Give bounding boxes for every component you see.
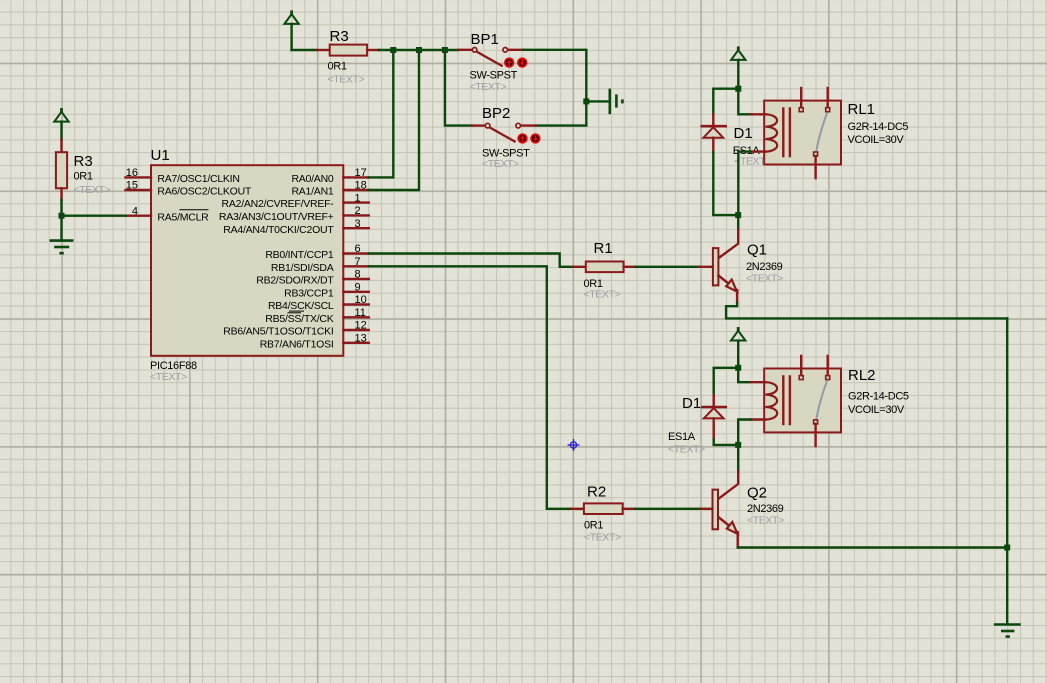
svg-text:<TEXT>: <TEXT>	[747, 515, 784, 527]
svg-text:13: 13	[355, 333, 367, 345]
origin marker (blue)	[568, 439, 580, 451]
BP1 toggle button up	[504, 57, 514, 67]
pin 18 RA1/AN1	[291, 180, 368, 198]
svg-text:RB7/AN6/T1OSI: RB7/AN6/T1OSI	[260, 338, 334, 350]
diode D1 (lower) ES1A	[668, 395, 727, 456]
resistor R2	[572, 484, 636, 544]
junction node at Q2 collector	[735, 442, 741, 448]
svg-text:U1: U1	[151, 147, 170, 164]
svg-text:2N2369: 2N2369	[747, 503, 784, 515]
svg-text:RB6/AN5/T1OSO/T1CKI: RB6/AN5/T1OSO/T1CKI	[223, 326, 333, 338]
wire down to pin 18	[369, 50, 419, 190]
wire right rail down to ground	[1006, 318, 1008, 624]
svg-text:2N2369: 2N2369	[746, 261, 783, 273]
BP2 toggle button up	[517, 133, 527, 143]
wire BP1 right down to BP2	[523, 50, 586, 126]
svg-text:Q1: Q1	[747, 242, 767, 259]
svg-text:RB4/SCK/SCL: RB4/SCK/SCL	[268, 300, 334, 312]
svg-text:17: 17	[355, 167, 367, 179]
svg-text:RB1/SDI/SDA: RB1/SDI/SDA	[271, 262, 334, 274]
wire pin 7 down to R2	[369, 266, 572, 509]
wire relay coil bottom to collector node	[738, 152, 750, 216]
wire RL2 coil bottom to Q2 collector node	[738, 420, 750, 445]
svg-text:RA4/AN4/T0CKI/C2OUT: RA4/AN4/T0CKI/C2OUT	[223, 224, 334, 236]
wire D1 anode down to collector node	[713, 152, 738, 215]
junction node VCC/RL1	[735, 86, 741, 92]
svg-text:<TEXT>: <TEXT>	[584, 288, 621, 300]
svg-text:18: 18	[355, 180, 367, 192]
IC U1 PIC16F88 microcontroller	[150, 147, 343, 383]
svg-text:11: 11	[355, 307, 366, 319]
pin 12 RB6/AN5/T1OSO/T1CKI	[223, 320, 369, 338]
pin 6 RB0/INT/CCP1	[265, 243, 368, 261]
junction node VCC/RL2	[735, 365, 741, 371]
wire R3 to BP1	[379, 49, 458, 51]
svg-text:RB0/INT/CCP1: RB0/INT/CCP1	[265, 249, 334, 261]
junction node at pin18	[416, 47, 422, 53]
ground (bar style, right of BP1)	[610, 89, 623, 115]
wire node to D1 top	[713, 89, 738, 115]
svg-text:<TEXT>: <TEXT>	[150, 371, 187, 383]
pin 4 RA5/MCLR (overline on MCLR)	[126, 205, 210, 223]
wire D1 lower anode to Q2 collector node	[714, 439, 739, 445]
svg-text:BP2: BP2	[482, 105, 510, 122]
pin 16 RA7/OSC1/CLKIN	[126, 167, 240, 185]
power symbol VCC relay RL1	[731, 46, 745, 88]
svg-text:1: 1	[355, 192, 361, 204]
transistor Q1 2N2369	[699, 229, 783, 303]
wire Q1 emitter to right rail	[726, 303, 1007, 318]
BP1 toggle button down	[517, 57, 527, 67]
junction node at R3/pin17	[390, 47, 396, 53]
svg-text:G2R-14-DC5: G2R-14-DC5	[848, 121, 909, 133]
svg-text:D1: D1	[734, 125, 753, 142]
wire node to RL2 coil top	[738, 368, 750, 382]
pin 13 RB7/AN6/T1OSI	[260, 333, 369, 351]
svg-text:SW-SPST: SW-SPST	[470, 69, 518, 81]
relay RL1 G2R-14-DC5	[751, 88, 909, 178]
wire R3 bottom to node	[60, 200, 62, 216]
wire down to pin 17	[369, 50, 394, 177]
wire node to pin 4	[62, 214, 126, 216]
junction node at Q1 collector	[735, 212, 741, 218]
relay RL2 G2R-14-DC5	[751, 356, 909, 446]
power symbol VCC top	[284, 10, 298, 50]
pin 9 RB3/CCP1	[284, 282, 369, 300]
svg-text:BP1: BP1	[471, 31, 499, 48]
svg-text:RA0/AN0: RA0/AN0	[291, 173, 333, 185]
switch BP2 SW-SPST	[472, 105, 536, 170]
resistor R1	[574, 240, 636, 300]
wire down to BP2	[445, 50, 472, 126]
resistor R3 (left, vertical)	[56, 140, 111, 200]
svg-text:R2: R2	[587, 484, 606, 501]
svg-text:15: 15	[126, 180, 138, 192]
svg-text:16: 16	[126, 167, 138, 179]
svg-text:R3: R3	[330, 28, 349, 45]
resistor R3 (top)	[317, 28, 379, 85]
svg-text:RA1/AN1: RA1/AN1	[291, 186, 333, 198]
wire pin 6 to R1	[369, 254, 574, 267]
pin 2 RA3/AN3/C1OUT/VREF+	[219, 205, 369, 223]
svg-text:RL1: RL1	[848, 101, 876, 118]
svg-text:Q2: Q2	[747, 485, 767, 502]
svg-text:0R1: 0R1	[74, 171, 93, 183]
junction node at R3/ground	[59, 213, 65, 219]
wire node to ground	[60, 216, 62, 241]
wire R2 to Q2 base	[636, 508, 701, 510]
svg-text:10: 10	[355, 294, 367, 306]
svg-text:RB2/SDO/RX/DT: RB2/SDO/RX/DT	[256, 275, 334, 287]
power symbol VCC left	[54, 108, 68, 140]
svg-text:ES1A: ES1A	[668, 431, 696, 443]
wire node to Q1 collector	[737, 215, 739, 229]
svg-text:7: 7	[355, 256, 361, 268]
svg-text:9: 9	[355, 282, 361, 294]
svg-text:12: 12	[355, 320, 367, 332]
svg-text:<TEXT>: <TEXT>	[328, 73, 365, 85]
svg-text:0R1: 0R1	[328, 60, 347, 72]
svg-text:<TEXT>: <TEXT>	[470, 81, 507, 93]
svg-text:0R1: 0R1	[584, 520, 603, 532]
svg-text:4: 4	[132, 205, 138, 217]
svg-text:RA6/OSC2/CLKOUT: RA6/OSC2/CLKOUT	[157, 186, 252, 198]
svg-text:<TEXT>: <TEXT>	[746, 273, 783, 285]
pin 7 RB1/SDI/SDA	[271, 256, 369, 274]
pin 3 RA4/AN4/T0CKI/C2OUT	[223, 218, 369, 236]
svg-text:8: 8	[355, 269, 361, 281]
svg-text:RA5/MCLR: RA5/MCLR	[157, 211, 209, 223]
svg-text:RB5/SS/TX/CK: RB5/SS/TX/CK	[265, 313, 333, 325]
svg-text:<TEXT>: <TEXT>	[74, 184, 111, 196]
wire node to relay coil top	[738, 89, 750, 115]
svg-text:3: 3	[355, 218, 361, 230]
power symbol VCC relay RL2	[731, 327, 745, 368]
svg-text:R3: R3	[74, 153, 93, 170]
svg-text:R1: R1	[594, 240, 613, 257]
svg-text:<TEXT>: <TEXT>	[482, 158, 519, 170]
wire to ground bars	[586, 100, 610, 102]
wire node to Q2 collector	[737, 445, 739, 471]
svg-text:G2R-14-DC5: G2R-14-DC5	[848, 391, 909, 403]
transistor Q2 2N2369	[701, 471, 784, 547]
junction node at ground rail	[1004, 545, 1010, 551]
switch BP1 SW-SPST	[458, 31, 523, 93]
pin 8 RB2/SDO/RX/DT	[256, 269, 369, 287]
svg-text:6: 6	[355, 243, 361, 255]
svg-text:RA7/OSC1/CLKIN: RA7/OSC1/CLKIN	[157, 173, 239, 185]
pin 17 RA0/AN0	[291, 167, 368, 185]
junction node at BP2 drop	[442, 47, 448, 53]
junction node at ground tap	[583, 98, 589, 104]
svg-text:RB3/CCP1: RB3/CCP1	[284, 287, 334, 299]
diode D1 (upper) ES1A	[701, 114, 772, 167]
svg-text:RA3/AN3/C1OUT/VREF+: RA3/AN3/C1OUT/VREF+	[219, 211, 334, 223]
wire R1 to Q1 base	[636, 266, 700, 268]
wire node to D1 lower top	[714, 368, 739, 396]
svg-text:D1: D1	[682, 395, 701, 412]
svg-text:<TEXT>: <TEXT>	[668, 444, 705, 456]
svg-text:RA2/AN2/CVREF/VREF-: RA2/AN2/CVREF/VREF-	[222, 198, 335, 210]
svg-text:VCOIL=30V: VCOIL=30V	[848, 404, 905, 416]
ground (left)	[50, 241, 74, 254]
svg-text:<TEXT>: <TEXT>	[584, 532, 621, 544]
svg-text:VCOIL=30V: VCOIL=30V	[848, 134, 905, 146]
BP2 toggle button down	[530, 133, 540, 143]
wire VCC to R3	[292, 49, 318, 51]
pin 15 RA6/OSC2/CLKOUT	[126, 180, 252, 198]
svg-text:RL2: RL2	[848, 367, 876, 384]
pin 11 RB5/SS/TX/CK (overline on SS)	[265, 307, 369, 325]
wire Q2 emitter to ground rail	[738, 546, 1008, 548]
ground (bottom right)	[994, 625, 1021, 637]
svg-text:2: 2	[355, 205, 361, 217]
pin 1 RA2/AN2/CVREF/VREF-	[222, 192, 369, 210]
pin 10 RB4/SCK/SCL (underline on SC)	[268, 294, 369, 312]
